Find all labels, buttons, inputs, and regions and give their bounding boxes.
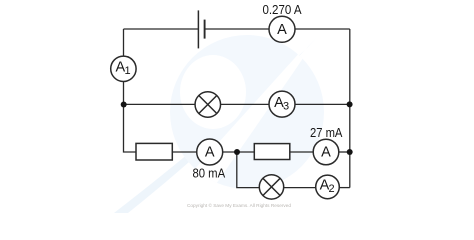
battery cell short plate [204, 20, 206, 39]
svg-text:A: A [321, 144, 331, 160]
circuit strokes [111, 10, 350, 199]
lamp L2 [259, 175, 283, 199]
svg-text:Copyright © Save My Exams. All: Copyright © Save My Exams. All Rights Re… [187, 202, 291, 208]
wire middle row left [124, 103, 196, 105]
wire ammeter 27mA to right vertical [339, 151, 350, 153]
wire A2 to right vertical [339, 187, 350, 189]
svg-text:2: 2 [329, 183, 335, 195]
svg-text:0.270 A: 0.270 A [262, 2, 301, 17]
svg-text:27 mA: 27 mA [310, 125, 343, 140]
watermark swoosh tail [114, 36, 318, 213]
ammeter A2 [316, 175, 340, 199]
lamp L1 [195, 92, 221, 118]
ammeter A top (0.270 A) [269, 16, 295, 42]
watermark white swoosh [155, 24, 326, 213]
wire resistor2 to ammeter 27mA [290, 151, 313, 153]
ammeter A1 [111, 56, 136, 81]
wire top left segment [124, 28, 199, 30]
junction node right mid [347, 149, 353, 155]
svg-text:1: 1 [124, 65, 130, 77]
wire battery to top ammeter [205, 28, 269, 30]
junction node right top [347, 101, 353, 107]
ammeter A 27mA [313, 139, 339, 165]
junction node mid [234, 149, 240, 155]
svg-text:A: A [277, 22, 287, 38]
wire resistor1 to ammeter 80mA [172, 151, 196, 153]
wire top ammeter to right corner [295, 28, 350, 30]
wire node down to bottom row [237, 152, 260, 188]
svg-text:80 mA: 80 mA [192, 165, 225, 180]
resistor R1 [136, 143, 172, 160]
wire lamp2 to A2 [284, 187, 316, 189]
labels [192, 2, 342, 180]
ammeter A 80mA [197, 139, 223, 165]
battery cell long plate [197, 10, 199, 48]
svg-text:3: 3 [283, 100, 289, 112]
wire left vertical lower [124, 82, 137, 153]
wire A3 to right vertical [295, 103, 350, 105]
watermark circle [170, 35, 324, 189]
svg-text:A: A [205, 144, 215, 160]
junction node left [121, 102, 127, 108]
resistor R2 [254, 144, 289, 160]
wire right vertical [349, 29, 351, 188]
wire lamp1 to A3 [221, 103, 269, 105]
ammeter A3 [269, 91, 295, 117]
wire left vertical upper [123, 29, 125, 56]
wire ammeter 80mA to resistor2 through node [223, 151, 255, 153]
